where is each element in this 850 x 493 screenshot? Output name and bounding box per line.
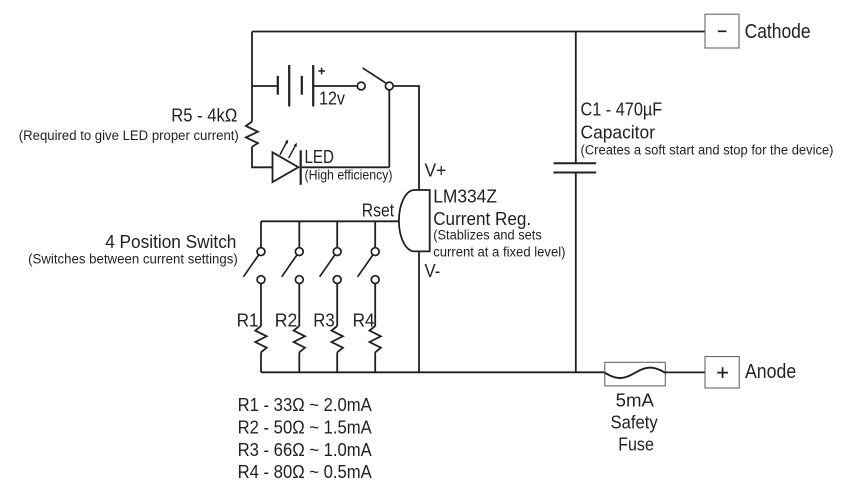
svg-text:R3 - 66Ω ~ 1.0mA: R3 - 66Ω ~ 1.0mA [238,439,373,460]
svg-text:R1: R1 [237,310,259,331]
label (Required to give LED proper current) [19,128,239,143]
svg-text:4 Position Switch: 4 Position Switch [105,231,236,252]
wire resistor R1 to bottom rail [260,352,262,372]
wire switch S1 to resistor R1 [260,284,262,327]
label R4 [353,310,375,331]
wire capacitor C1 bottom lead [575,173,577,373]
svg-text:R2 - 50Ω ~ 1.5mA: R2 - 50Ω ~ 1.5mA [238,416,373,437]
power switch arm (open) [363,68,387,83]
switch S2 stub from Rset rail [298,221,300,247]
label R2 [275,310,298,331]
label R2 - 50Ω ~ 1.5mA [238,416,373,437]
anode plus mark [717,367,728,378]
cathode minus mark [718,30,727,32]
svg-text:V+: V+ [425,160,447,181]
svg-text:Anode: Anode [745,360,796,383]
svg-text:R3: R3 [313,310,334,331]
label 4 Position Switch [105,231,236,252]
svg-text:(Required to give LED proper c: (Required to give LED proper current) [19,128,239,143]
svg-text:(Switches between current sett: (Switches between current settings) [28,251,238,266]
label (Stablizes and sets [433,228,542,243]
switch S4 bottom terminal [371,276,379,284]
label Fuse [618,433,654,454]
battery plus polarity mark [318,68,325,75]
label Capacitor [581,121,656,142]
svg-text:LM334Z: LM334Z [433,185,497,206]
anode terminal box [705,357,739,388]
svg-text:R4 - 80Ω ~ 0.5mA: R4 - 80Ω ~ 0.5mA [238,461,373,482]
label Anode [745,360,796,383]
resistor R1 zigzag [255,326,266,352]
svg-text:current at a fixed level): current at a fixed level) [433,245,565,260]
cathode terminal box [705,14,739,48]
label R1 - 33Ω ~ 2.0mA [238,394,373,415]
label R3 - 66Ω ~ 1.0mA [238,439,373,460]
label current at a fixed level) [433,245,565,260]
svg-text:12v: 12v [319,88,346,109]
label Cathode [745,20,811,43]
wire LED cathode to junction [302,166,389,168]
switch S4 stub from Rset rail [374,221,376,247]
wire from switch terminal down to LED cathode net [388,90,390,167]
wire capacitor C1 top lead [575,32,577,164]
wire bottom rail [261,371,605,373]
label LM334Z [433,185,497,206]
switch S3 stub from Rset rail [336,221,338,247]
label Rset [362,200,394,221]
svg-text:V-: V- [425,260,441,281]
capacitor C1 plates [554,163,597,172]
svg-text:R5 - 4kΩ: R5 - 4kΩ [171,105,237,126]
wire battery positive lead to switch [313,85,357,87]
LED D1 cathode bar [300,150,302,185]
wire switch to V+ rail corner [393,86,419,190]
label R3 [313,310,334,331]
wire left vertical from top rail down to R5 [251,32,253,122]
svg-text:C1 - 470µF: C1 - 470µF [581,98,663,119]
wire top rail from battery negative to cathode box [252,31,705,33]
label Safety [611,411,659,432]
LED emission arrow 1 [280,139,288,155]
switch S1 top terminal [257,248,265,256]
resistor R5 zigzag [246,122,258,147]
wire switch S4 to resistor R4 [374,284,376,327]
label Current Reg. [433,208,531,229]
wire Rset rail [261,220,399,222]
label R1 [237,310,259,331]
svg-text:Safety: Safety [611,411,659,432]
LED emission arrow 2 [289,143,297,159]
switch S3 top terminal [333,248,341,256]
svg-text:(High efficiency): (High efficiency) [305,168,393,183]
svg-text:R2: R2 [275,310,298,331]
wire fuse to anode box [665,371,705,373]
wire switch S2 to resistor R2 [298,284,300,327]
switch S3 arm (open) [320,255,335,277]
switch S4 arm (open) [358,255,373,277]
wire V- down to bottom rail [418,251,420,372]
label R4 - 80Ω ~ 0.5mA [238,461,373,482]
svg-text:Rset: Rset [362,200,394,221]
label R5 - 4kΩ [171,105,237,126]
wire resistor R4 to bottom rail [374,352,376,372]
fuse F1 wave element [605,368,666,378]
resistor R2 zigzag [294,326,305,352]
wire battery negative lead [252,85,278,87]
op-amp U1 LM334Z body [399,190,430,251]
label 12v [319,88,346,109]
label (Creates a soft start and stop for the device) [581,142,834,157]
svg-text:Cathode: Cathode [745,20,811,43]
wire resistor R2 to bottom rail [298,352,300,372]
svg-text:(Stablizes and sets: (Stablizes and sets [433,228,542,243]
battery B1 12v plates [278,65,313,107]
switch S2 arm (open) [282,255,297,277]
switch S2 top terminal [295,248,303,256]
switch S1 stub from Rset rail [260,221,262,247]
power switch left terminal [357,82,365,90]
fuse F1 box [605,362,666,386]
svg-text:5mA: 5mA [616,389,655,410]
resistor R3 zigzag [332,326,343,352]
switch S1 bottom terminal [257,276,265,284]
svg-text:Current Reg.: Current Reg. [433,208,531,229]
switch S1 arm (open) [243,255,258,277]
power switch right terminal [385,82,393,90]
wire from R5 down and right to LED anode [252,147,273,167]
LED D1 triangle [273,152,299,182]
svg-text:Fuse: Fuse [618,433,654,454]
label LED [305,146,335,167]
svg-text:LED: LED [305,146,335,167]
label (High efficiency) [305,168,393,183]
resistor R4 zigzag [370,326,381,352]
wire switch S3 to resistor R3 [336,284,338,327]
label (Switches between current settings) [28,251,238,266]
label V+ [425,160,447,181]
wire resistor R3 to bottom rail [336,352,338,372]
svg-text:Capacitor: Capacitor [581,121,656,142]
label C1 - 470µF [581,98,663,119]
switch S3 bottom terminal [333,276,341,284]
label 5mA [616,389,655,410]
svg-text:R4: R4 [353,310,375,331]
svg-text:(Creates a soft start and stop: (Creates a soft start and stop for the d… [581,142,834,157]
svg-text:R1 - 33Ω ~ 2.0mA: R1 - 33Ω ~ 2.0mA [238,394,373,415]
label V- [425,260,441,281]
switch S2 bottom terminal [295,276,303,284]
switch S4 top terminal [371,248,379,256]
